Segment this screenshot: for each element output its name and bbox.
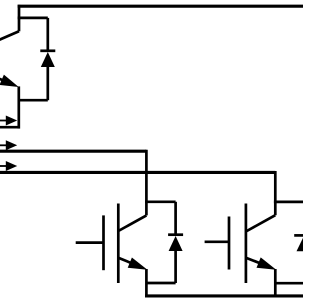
arrow 3 shaft	[0, 165, 7, 167]
wire B: horizontal run to Q2 collector	[0, 171, 275, 174]
wire A: horizontal run to Q1 collector	[0, 150, 146, 153]
transistor Q2 emitter arrowhead	[257, 257, 277, 269]
transistor Q2 gate bar	[228, 217, 231, 270]
transistor Q1 emitter diagonal	[118, 258, 134, 265]
diode D3 triangle	[41, 52, 55, 67]
transistor Q3 emitter arrowhead	[0, 75, 19, 87]
diode D3 cathode bar	[40, 49, 55, 52]
diode D2 cathode bar (clipped by right edge)	[294, 234, 303, 237]
transistor Q2 emitter diagonal	[246, 258, 263, 265]
wire: Q1 collector to diode D1 branch	[145, 200, 176, 203]
wire: Q2 emitter to diode D2 branch	[275, 282, 303, 285]
transistor Q1 emitter arrowhead	[128, 258, 148, 270]
transistor Q3 emitter stub	[17, 86, 20, 128]
arrow 1 shaft	[0, 120, 7, 122]
wire: Q3 emitter to diode D3 branch	[19, 99, 48, 102]
arrow 1 head	[6, 116, 17, 126]
transistor Q1 gate bar	[102, 215, 105, 270]
wire: Q1 emitter to diode D1 branch	[146, 282, 175, 285]
transistor Q1 body bar	[117, 204, 120, 284]
arrow 2 head	[6, 140, 17, 150]
transistor Q3 (top IGBT, cut by left edge): collector stub	[18, 5, 21, 32]
transistor Q3 emitter diagonal	[0, 77, 8, 82]
transistor Q1 gate lead	[76, 241, 104, 244]
diode D3 anode lead	[46, 66, 49, 100]
wire A vertical drop to Q1 collector node	[145, 150, 148, 216]
wire B vertical drop to Q2 collector node	[274, 171, 277, 215]
wire: bottom bus	[145, 294, 303, 297]
wire: Q2 collector to diode D2 branch	[274, 201, 303, 204]
diode D1 anode lead	[174, 250, 177, 283]
wire: Q3 collector to diode D3 branch	[18, 17, 48, 20]
transistor Q1 collector diagonal	[118, 215, 146, 231]
transistor Q2 gate lead	[205, 240, 229, 243]
diode D2 triangle (clipped by right edge)	[297, 237, 311, 252]
wire: top DC bus	[18, 5, 303, 8]
diode D3 cathode lead	[46, 18, 49, 51]
wire: gate/auxiliary line 1 into Q3 emitter node	[0, 126, 18, 129]
transistor Q2 body bar	[245, 204, 248, 284]
transistor Q2 emitter stub	[274, 269, 277, 297]
transistor Q3 collector diagonal	[0, 31, 19, 41]
transistor Q1 emitter stub	[145, 269, 148, 297]
arrow 2 shaft	[0, 144, 7, 146]
arrow 3 head	[6, 161, 17, 171]
diode D1 triangle	[169, 236, 183, 251]
diode D1 cathode lead	[174, 202, 177, 235]
diode D1 cathode bar	[168, 233, 183, 236]
transistor Q2 collector diagonal	[246, 215, 275, 231]
